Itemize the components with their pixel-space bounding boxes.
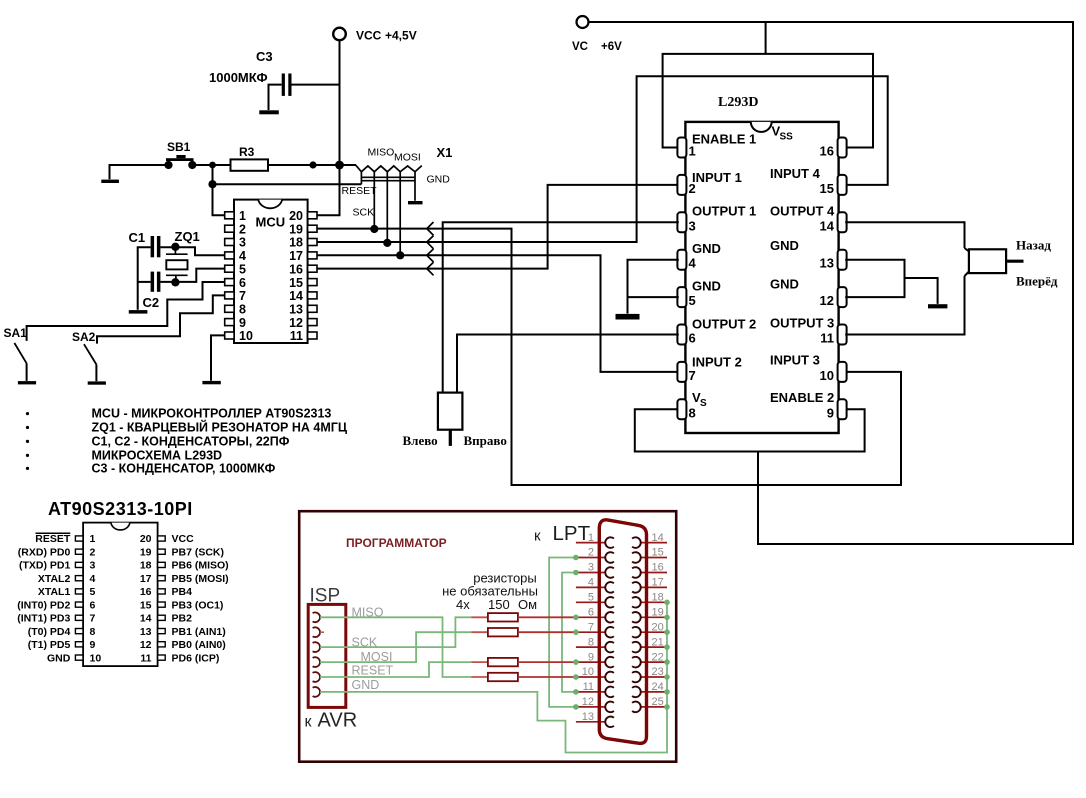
svg-text:C3: C3: [256, 49, 273, 64]
MCU pin squares right 20-11: [308, 212, 317, 339]
wire MCU pin7 to SA2: [97, 295, 225, 343]
wire pin13/pin12 GND: [845, 260, 937, 304]
svg-text:17: 17: [289, 249, 303, 263]
svg-text:23: 23: [652, 666, 664, 678]
LPT arcs right column: [632, 537, 641, 712]
wire MCU pin16 to L293D pin2 (INPUT 1): [317, 185, 679, 269]
ground (C3): [259, 110, 279, 114]
svg-text:PB7 (SCK): PB7 (SCK): [172, 546, 225, 558]
wire RESET line to X1: [213, 183, 362, 185]
svg-text:(T0) PD4: (T0) PD4: [28, 626, 71, 638]
svg-text:VCC: VCC: [356, 29, 382, 43]
svg-text:1: 1: [90, 533, 96, 545]
svg-text:SA2: SA2: [72, 330, 96, 344]
svg-text:17: 17: [140, 573, 152, 585]
resistor R (2): [488, 628, 518, 636]
svg-text:к: к: [534, 528, 541, 545]
svg-text:15: 15: [820, 181, 834, 196]
node dot MISO: [383, 239, 391, 247]
svg-text:к: к: [305, 714, 313, 731]
svg-text:SCK: SCK: [353, 207, 375, 219]
svg-text:ZQ1: ZQ1: [175, 229, 200, 244]
svg-text:20: 20: [289, 209, 303, 223]
svg-text:4: 4: [239, 249, 246, 263]
svg-text:OUTPUT 1: OUTPUT 1: [692, 204, 756, 219]
wire MCU pin17 to L293D pin7 (INPUT 2): [317, 255, 679, 372]
svg-text:MCU - МИКРОКОНТРОЛЛЕР АТ90S231: MCU - МИКРОКОНТРОЛЛЕР АТ90S2313: [92, 407, 332, 421]
svg-text:7: 7: [239, 289, 246, 303]
switch SA2: [72, 330, 96, 381]
signal labels (gray): [352, 605, 394, 692]
wire MCU pin20 to VCC: [317, 165, 340, 215]
svg-text:SS: SS: [780, 132, 794, 143]
wire OUTPUT4 (pin14) / OUTPUT3 (pin11) to right motor: [845, 222, 969, 334]
wire MCU pin10 to ground: [211, 335, 225, 380]
node XTAL top: [171, 243, 179, 251]
svg-text:16: 16: [820, 144, 834, 159]
resistor R (3): [488, 658, 518, 666]
svg-text:6: 6: [239, 276, 246, 290]
svg-text:150: 150: [488, 597, 510, 612]
ground (C1/C2): [129, 310, 148, 314]
svg-text:21: 21: [652, 636, 664, 648]
green wire RESET: [320, 662, 471, 677]
svg-text:SA1: SA1: [4, 326, 28, 340]
svg-text:INPUT 1: INPUT 1: [692, 170, 742, 185]
green wire SCK: [320, 617, 471, 647]
wire MCU pin6 to SA1: [27, 282, 225, 341]
L293D left pin labels: [692, 132, 756, 410]
motor connector Влево/Вправо: [403, 393, 507, 448]
svg-text:Ом: Ом: [518, 597, 537, 612]
node dot MOSI: [396, 251, 404, 259]
svg-text:МИКРОСХЕМА L293D: МИКРОСХЕМА L293D: [92, 448, 223, 462]
green junction dots left: [573, 555, 579, 710]
svg-text:14: 14: [140, 613, 152, 625]
svg-text:PB5 (MOSI): PB5 (MOSI): [172, 573, 229, 585]
wire OUTPUT2 (pin6) to left motor: [457, 335, 679, 393]
MCU chip body: [234, 200, 308, 343]
green wire LPT pin3-pin11: [562, 573, 576, 692]
wire node bottom to MCU pin5: [160, 269, 224, 282]
svg-text:18: 18: [652, 592, 664, 604]
svg-text:7: 7: [90, 613, 96, 625]
wire pin8/pin9 VS loop: [635, 409, 865, 451]
svg-text:11: 11: [140, 652, 151, 664]
svg-text:16: 16: [652, 562, 664, 574]
svg-text:(INT1) PD3: (INT1) PD3: [17, 613, 70, 625]
green wire LPT pin2-pin12: [549, 558, 576, 707]
svg-text:PB0 (AIN0): PB0 (AIN0): [172, 639, 226, 651]
svg-text:MISO: MISO: [368, 147, 395, 159]
pinout left labels: [17, 533, 71, 664]
chevrons on MCU bus lines: [427, 222, 434, 275]
svg-text:X1: X1: [437, 145, 453, 160]
svg-text:PB3 (OC1): PB3 (OC1): [172, 599, 224, 611]
svg-text:GND: GND: [692, 279, 721, 294]
svg-text:9: 9: [588, 651, 594, 663]
svg-text:(T1) PD5: (T1) PD5: [28, 639, 71, 651]
node RESET junction: [208, 180, 216, 188]
wire SB1 to R3 rail: [192, 164, 230, 166]
svg-text:LPT: LPT: [553, 522, 591, 545]
svg-text:VC: VC: [572, 41, 588, 53]
wire +6V top rail and right loop: [589, 22, 1074, 544]
svg-text:13: 13: [289, 303, 303, 317]
MCU pin squares left 1-10: [225, 212, 234, 339]
wire OUTPUT1 (pin3) to left motor: [443, 222, 679, 392]
svg-text:10: 10: [820, 368, 834, 383]
svg-text:XTAL2: XTAL2: [38, 573, 71, 585]
ground (SB1): [101, 180, 119, 183]
svg-text:PD6 (ICP): PD6 (ICP): [172, 652, 220, 664]
svg-text:+4,5V: +4,5V: [385, 29, 417, 43]
svg-text:11: 11: [820, 331, 834, 346]
switch SA1: [4, 326, 28, 381]
svg-text:25: 25: [652, 696, 664, 708]
svg-text:6: 6: [689, 331, 696, 346]
pinout pin squares: [75, 536, 165, 660]
wire C3 left leg: [269, 85, 282, 110]
L293D chip body: [685, 122, 838, 433]
svg-text:10: 10: [90, 652, 102, 664]
node dot SCK: [370, 225, 378, 233]
svg-text:(TXD) PD1: (TXD) PD1: [19, 560, 70, 572]
svg-text:15: 15: [652, 547, 664, 559]
svg-text:9: 9: [239, 316, 246, 330]
svg-text:7: 7: [588, 621, 594, 633]
svg-text:XTAL1: XTAL1: [38, 586, 71, 598]
capacitor C3: [209, 49, 292, 96]
parts list: [0, 0, 1, 1]
programmer frame: [299, 511, 676, 762]
wire C1 left leg + common vertical: [138, 247, 151, 310]
svg-text:1: 1: [588, 532, 594, 544]
svg-text:INPUT 2: INPUT 2: [692, 355, 742, 370]
svg-text:MOSI: MOSI: [394, 152, 421, 164]
svg-text:19: 19: [140, 546, 152, 558]
svg-text:18: 18: [140, 560, 152, 572]
connector X1: [356, 145, 452, 255]
svg-text:ПРОГРАММАТОР: ПРОГРАММАТОР: [346, 536, 447, 550]
svg-text:16: 16: [140, 586, 152, 598]
resistor R3: [231, 145, 269, 171]
wire node top to MCU pin4: [160, 247, 224, 255]
svg-text:5: 5: [90, 586, 96, 598]
svg-text:7: 7: [689, 368, 696, 383]
svg-text:19: 19: [289, 222, 303, 236]
svg-text:14: 14: [820, 218, 835, 233]
svg-text:19: 19: [652, 607, 664, 619]
capacitor C2: [143, 272, 161, 310]
ISP connector: [308, 604, 346, 707]
svg-text:14: 14: [289, 289, 303, 303]
wire MCU pin18 to L293D pin15 (INPUT 4): [317, 76, 888, 242]
svg-text:10: 10: [582, 666, 594, 678]
svg-text:3: 3: [239, 236, 246, 250]
svg-text:OUTPUT 2: OUTPUT 2: [692, 317, 756, 332]
svg-text:OUTPUT 3: OUTPUT 3: [770, 316, 834, 331]
svg-text:+6V: +6V: [601, 41, 622, 53]
svg-text:12: 12: [582, 696, 594, 708]
wire C3 to VCC: [292, 84, 340, 86]
svg-text:INPUT 4: INPUT 4: [770, 166, 821, 181]
svg-text:15: 15: [289, 276, 303, 290]
svg-text:17: 17: [652, 577, 664, 589]
svg-text:15: 15: [140, 599, 152, 611]
svg-text:20: 20: [140, 533, 152, 545]
svg-text:18: 18: [289, 236, 303, 250]
wire pin4/pin5 GND: [628, 260, 679, 314]
svg-text:2: 2: [90, 546, 96, 558]
L293D left pin tabs 1-8: [677, 138, 686, 420]
resistor stubs left (red): [471, 617, 488, 677]
svg-text:R3: R3: [239, 145, 255, 159]
svg-text:C2: C2: [143, 295, 160, 310]
svg-text:(RXD) PD0: (RXD) PD0: [18, 546, 71, 558]
svg-text:10: 10: [239, 329, 253, 343]
svg-text:3: 3: [689, 218, 696, 233]
ground (X1 GND pin): [408, 201, 423, 204]
LPT pin lines right 14-25: [641, 543, 667, 707]
svg-text:13: 13: [820, 256, 834, 271]
node junction dots on rail: [209, 162, 216, 169]
svg-text:Назад: Назад: [1016, 238, 1051, 253]
L293D right pin numbers: [820, 144, 835, 421]
wire ENABLE1/VSS rail (pin1 to pin16): [663, 54, 873, 148]
svg-text:RESET: RESET: [35, 533, 71, 545]
svg-text:Вперёд: Вперёд: [1016, 274, 1058, 289]
ISP unused pin stub: [320, 631, 324, 633]
svg-text:MCU: MCU: [256, 215, 286, 230]
capacitor C1: [129, 230, 161, 257]
ground (SA2): [88, 381, 106, 384]
svg-text:SB1: SB1: [167, 140, 191, 154]
svg-text:PB1 (AIN1): PB1 (AIN1): [172, 626, 226, 638]
wire R3 to VCC rail: [268, 164, 356, 166]
svg-text:3: 3: [90, 560, 96, 572]
svg-text:4х: 4х: [456, 597, 470, 612]
svg-text:20: 20: [652, 621, 664, 633]
MCU pin numbers: [239, 209, 303, 343]
power terminal VC +6V: [572, 16, 622, 53]
label к LPT: [534, 522, 591, 545]
svg-text:L293D: L293D: [718, 95, 758, 110]
svg-text:12: 12: [289, 316, 303, 330]
svg-text:1: 1: [689, 144, 696, 159]
svg-text:GND: GND: [770, 238, 799, 253]
green wire GND: [320, 602, 667, 752]
LPT pin lines left 1-13: [576, 543, 606, 722]
svg-text:С3 - КОНДЕНСАТОР, 1000МКФ: С3 - КОНДЕНСАТОР, 1000МКФ: [92, 461, 276, 475]
motor connector Назад/Вперёд: [969, 238, 1058, 289]
svg-text:GND: GND: [352, 678, 380, 692]
label к AVR: [305, 710, 358, 732]
svg-text:(INT0) PD2: (INT0) PD2: [17, 599, 70, 611]
switch SB1: [164, 140, 196, 169]
LPT arcs left column: [605, 537, 614, 727]
crystal ZQ1: [166, 229, 200, 282]
svg-text:5: 5: [689, 293, 696, 308]
svg-text:24: 24: [652, 681, 664, 693]
svg-text:5: 5: [588, 592, 594, 604]
svg-text:8: 8: [689, 405, 696, 420]
L293D left pin numbers: [689, 144, 697, 421]
svg-text:Вправо: Вправо: [464, 433, 507, 448]
L293D right pin labels: [770, 124, 835, 406]
svg-text:PB2: PB2: [172, 613, 193, 625]
green wire MOSI: [320, 632, 471, 662]
svg-text:6: 6: [588, 607, 594, 619]
pinout chip body: [83, 523, 158, 667]
svg-text:S: S: [700, 398, 707, 409]
LPT pin numbers left: [582, 532, 594, 723]
ground (L293D pins 4,5): [616, 314, 640, 320]
svg-text:13: 13: [582, 711, 594, 723]
svg-text:C1: C1: [129, 230, 146, 245]
svg-text:ENABLE 2: ENABLE 2: [770, 390, 834, 405]
svg-text:RESET: RESET: [342, 185, 378, 197]
svg-text:INPUT 3: INPUT 3: [770, 353, 820, 368]
wire +6V drop to enable rail: [765, 22, 767, 54]
svg-text:GND: GND: [692, 241, 721, 256]
resistor R (1): [488, 613, 518, 621]
wire VCC vertical: [339, 40, 341, 165]
svg-text:VCC: VCC: [172, 533, 195, 545]
svg-text:11: 11: [290, 329, 303, 343]
svg-text:13: 13: [140, 626, 152, 638]
svg-text:GND: GND: [427, 174, 451, 186]
svg-text:AT90S2313-10PI: AT90S2313-10PI: [48, 499, 193, 519]
svg-text:2: 2: [689, 181, 696, 196]
green wire MISO: [320, 617, 471, 677]
L293D right pin tabs 16-9: [838, 138, 847, 420]
pinout numbers: [90, 533, 152, 664]
wire SB1 to left ground: [110, 165, 169, 179]
svg-text:ENABLE 1: ENABLE 1: [692, 132, 756, 147]
svg-text:9: 9: [827, 405, 834, 420]
ISP pin arcs: [313, 612, 320, 696]
DB25 shell: [599, 520, 646, 744]
svg-text:4: 4: [588, 577, 594, 589]
ground (MCU pin10): [202, 381, 220, 384]
svg-text:С1, С2 - КОНДЕНСАТОРЫ, 22ПФ: С1, С2 - КОНДЕНСАТОРЫ, 22ПФ: [92, 434, 290, 448]
svg-text:8: 8: [588, 636, 594, 648]
svg-text:12: 12: [820, 293, 834, 308]
svg-text:2: 2: [588, 547, 594, 559]
svg-text:6: 6: [90, 599, 96, 611]
svg-text:4: 4: [90, 573, 96, 585]
svg-text:ZQ1 - КВАРЦЕВЫЙ РЕЗОНАТОР НА 4: ZQ1 - КВАРЦЕВЫЙ РЕЗОНАТОР НА 4МГЦ: [92, 420, 348, 435]
LPT pin numbers right: [652, 532, 664, 708]
svg-text:8: 8: [90, 626, 96, 638]
svg-text:16: 16: [289, 262, 303, 276]
green junction dots right: [664, 600, 670, 710]
note резисторы не обязательны 4х 150 Ом: [442, 571, 538, 613]
svg-text:GND: GND: [770, 277, 799, 292]
svg-text:14: 14: [652, 532, 664, 544]
svg-text:3: 3: [588, 562, 594, 574]
svg-text:22: 22: [652, 651, 664, 663]
wire rail down to MCU pin1: [213, 165, 225, 215]
svg-text:11: 11: [583, 681, 594, 693]
RESET overline: [36, 532, 71, 534]
svg-text:1: 1: [239, 209, 246, 223]
ground (SA1): [18, 381, 36, 384]
wire C2 left leg: [138, 281, 151, 283]
wire MCU pin19 to L293D pin10 (INPUT 3): [317, 229, 901, 485]
ground (L293D pins 13,12): [928, 304, 947, 308]
svg-text:9: 9: [90, 639, 96, 651]
svg-text:1000МКФ: 1000МКФ: [209, 70, 268, 85]
svg-text:PB4: PB4: [172, 586, 193, 598]
power terminal VCC +4,5V: [333, 28, 417, 43]
svg-text:RESET: RESET: [352, 664, 394, 678]
svg-text:12: 12: [140, 639, 152, 651]
svg-text:Влево: Влево: [403, 433, 438, 448]
svg-text:2: 2: [239, 222, 246, 236]
svg-text:AVR: AVR: [318, 710, 358, 732]
node XTAL bottom: [171, 278, 179, 286]
svg-text:5: 5: [239, 262, 246, 276]
svg-text:GND: GND: [47, 652, 71, 664]
svg-text:OUTPUT 4: OUTPUT 4: [770, 204, 835, 219]
svg-text:4: 4: [689, 256, 697, 271]
svg-text:PB6 (MISO): PB6 (MISO): [172, 560, 229, 572]
resistor R (4): [488, 673, 518, 681]
svg-text:8: 8: [239, 303, 246, 317]
pinout right labels: [172, 533, 229, 664]
resistor stubs right to LPT (red): [518, 617, 576, 677]
